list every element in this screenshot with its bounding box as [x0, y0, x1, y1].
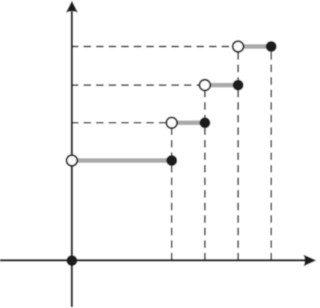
- closed point (3, 3): [234, 81, 243, 90]
- y axis arrowhead: [66, 1, 78, 13]
- open point (3, 4): [233, 41, 244, 52]
- x axis arrowhead: [304, 255, 317, 267]
- dashed guide h y=85.1: [71, 84, 205, 86]
- closed point (1, 1): [167, 156, 176, 165]
- dashed guide h y=122.8: [71, 122, 172, 124]
- gray step segment 3: [205, 83, 238, 88]
- dashed guide v x=238.2: [237, 47, 239, 261]
- gray step segment 4: [238, 44, 271, 49]
- dashed guide v x=271.2: [270, 47, 272, 261]
- closed point (4, 4): [267, 42, 276, 51]
- dashed guide v x=171.7: [171, 123, 173, 261]
- gray step segment 1: [72, 158, 172, 163]
- dashed guide v x=205: [204, 85, 206, 260]
- closed point (2, 2): [200, 118, 209, 127]
- y axis: [71, 12, 73, 308]
- x axis: [0, 259, 305, 261]
- gray step segment 2: [172, 121, 205, 126]
- open point (0, 1): [67, 155, 78, 166]
- open point (1, 2): [166, 117, 177, 128]
- dashed guide h y=46.4: [71, 46, 238, 48]
- origin point: [67, 256, 76, 265]
- open point (2, 3): [200, 80, 211, 91]
